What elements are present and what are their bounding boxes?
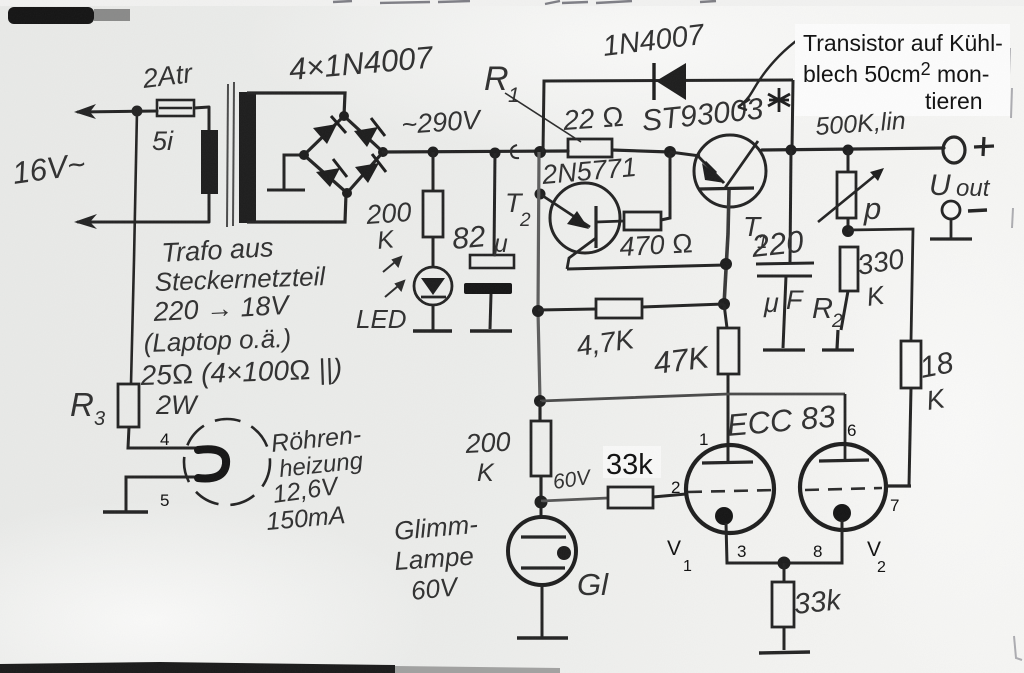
- transistor T1 internals: [697, 141, 758, 189]
- node rail / bypass loop: [534, 146, 546, 158]
- label R1 with pointer line: [484, 60, 581, 142]
- wire from AC node down to R3: [131, 111, 137, 384]
- label R2: [812, 293, 843, 332]
- wire minus terminal to ground: [950, 219, 953, 238]
- pin 2 label: [671, 478, 680, 497]
- bridge diode D3 (bottom-left arm): [316, 159, 347, 187]
- label Transistor auf Kuehlblech (printed): [795, 24, 1010, 116]
- label minus: [968, 210, 987, 211]
- output terminal -: [942, 201, 960, 219]
- arrow AC bottom left: [74, 214, 97, 229]
- bridge rectifier diamond outline: [304, 116, 383, 193]
- wire V1 cathode to pin 3: [726, 523, 784, 563]
- wire pot bottom to 18K branch: [848, 229, 913, 341]
- wire pencil dropper from rail node down to 60V node: [538, 152, 541, 502]
- tube V1 envelope: [686, 445, 774, 533]
- transformer TR1 core: [227, 82, 234, 227]
- wire R3 to heater pin 4: [128, 427, 205, 448]
- wire bypass loop down to output rail: [792, 80, 793, 150]
- glow lamp dot: [557, 546, 571, 560]
- label ECC 83: [726, 399, 837, 443]
- ground (82u): [470, 329, 512, 332]
- node junction AC top: [132, 106, 143, 117]
- ground (Gl): [517, 636, 568, 639]
- wire R1 to base node: [612, 150, 670, 152]
- pin 3 label: [737, 542, 746, 561]
- tube heater dashed envelope circle: [184, 419, 270, 505]
- wire AC bottom line: [78, 221, 209, 224]
- node output rail / pot branch: [843, 145, 854, 156]
- resistor R3: [118, 384, 139, 427]
- transformer TR1 primary winding: [201, 107, 218, 222]
- transformer TR1 secondary winding: [239, 92, 346, 223]
- output terminal +: [943, 137, 965, 163]
- wire V2 grid drop: [844, 394, 847, 459]
- node R1 / 470 Ohm / base: [664, 146, 676, 158]
- pin 5 label: [160, 491, 169, 510]
- ground (R2): [822, 330, 854, 350]
- label 60V: [551, 466, 593, 494]
- pin 6 label: [847, 421, 856, 440]
- callout arrow to transistor: [738, 38, 800, 110]
- label Gl: [577, 567, 609, 602]
- bridge corner nodes: [299, 111, 388, 198]
- label V2 (printed): [867, 538, 886, 576]
- label 82u: [451, 220, 508, 258]
- diode 1N4007 (bypass): [654, 63, 686, 100]
- label T2: [505, 188, 531, 231]
- tube V1 cathode dot: [715, 507, 733, 525]
- resistor 47K body: [718, 304, 739, 462]
- capacitor 82u wire: [494, 153, 495, 254]
- ground (output minus): [930, 237, 972, 240]
- label Trafo aus Steckernetzteil 220->18V (Laptop o.ae.): [143, 232, 327, 358]
- label Glimmlampe 60V: [393, 509, 479, 606]
- bridge diode D2 (top-right arm): [354, 118, 385, 147]
- label 2Atr: [140, 58, 195, 94]
- wire cap branch down: [790, 150, 791, 263]
- tube V2 anode: [819, 460, 869, 461]
- pin 4 label: [160, 430, 169, 449]
- transistor T2 base bar and leads: [540, 194, 596, 269]
- label 330 K: [855, 243, 906, 312]
- wire AC top line: [78, 107, 209, 112]
- ground (220uF): [763, 348, 805, 351]
- node emitter / T2 collector: [720, 258, 732, 270]
- node main rail / 200K: [428, 147, 439, 158]
- node main rail / 82u: [490, 148, 501, 159]
- label Roehrenheizung 12,6V 150mA: [265, 421, 365, 536]
- transistor T2 emitter arrow: [567, 211, 589, 229]
- node pencil line / 4,7K: [532, 305, 544, 317]
- scan artifact bar top-left: [8, 7, 130, 24]
- label 4,7K: [575, 323, 638, 362]
- label Uout: [929, 169, 991, 202]
- node output rail / cap branch: [786, 145, 797, 156]
- capacitor 220uF plates: [756, 263, 814, 276]
- label 33k (printed): [603, 446, 661, 481]
- tube heater filament loop: [198, 449, 226, 478]
- label 18 K: [917, 346, 956, 416]
- scan artifact bar bottom-left: [0, 662, 560, 673]
- resistor 4,7K body: [538, 299, 724, 318]
- label ~290V: [400, 104, 484, 140]
- pin 8 label: [813, 542, 822, 561]
- label 5i: [152, 126, 174, 156]
- wire heater pin 5 to ground: [126, 477, 199, 511]
- label 22 Ohm: [561, 101, 624, 136]
- node pot bottom: [842, 225, 854, 237]
- wire bypass loop up and across (collector supply): [543, 80, 793, 152]
- resistor 470 Ohm body: [596, 153, 670, 230]
- resistor 33k (grid stopper) body: [608, 487, 686, 508]
- ground (heater): [103, 510, 148, 513]
- wire base node to ST93003: [670, 152, 700, 156]
- LED indicator arrows: [383, 257, 404, 297]
- node cathode join: [778, 557, 791, 570]
- top edge cut-off writing marks: [333, 1, 716, 4]
- tube V2 grid (dashed): [805, 488, 882, 490]
- scan specks right edge: [1009, 48, 1022, 660]
- capacitor 82u bottom plate: [464, 283, 512, 294]
- wire output rail: [762, 148, 944, 150]
- resistor 200K (divider) body: [531, 401, 551, 502]
- transistor T1 arrow: [702, 162, 725, 183]
- label 220 uF: [749, 224, 805, 318]
- resistor 33k (cathode) body: [772, 563, 794, 650]
- potentiometer P wiper arrow: [818, 168, 884, 222]
- label 47K: [652, 339, 712, 381]
- wire 82u to ground: [490, 294, 491, 329]
- resistor 18K body: [901, 341, 921, 486]
- resistor R2 330K body: [840, 247, 858, 330]
- label V1 (printed): [667, 537, 692, 575]
- pin 1 label: [699, 430, 708, 449]
- node emitter / 4,7K: [718, 298, 730, 310]
- tick mark c on rail: [511, 145, 519, 158]
- label R3: [70, 386, 105, 430]
- ground (cathode 33k): [759, 652, 810, 653]
- label 2N5771: [540, 152, 638, 190]
- label T1: [743, 211, 768, 253]
- label plus: [974, 137, 994, 156]
- label 16V~: [10, 146, 87, 191]
- label 1N4007: [601, 19, 708, 63]
- transistor T2 2N5771 envelope: [550, 183, 620, 253]
- label 470 Ohm: [619, 228, 694, 262]
- LED D5: [414, 237, 452, 330]
- transistor T1 ST93003 envelope: [694, 135, 766, 207]
- glow lamp Gl envelope: [508, 502, 576, 585]
- transformer secondary tap to ground bar: [267, 155, 305, 190]
- wire main B+ rail from bridge to R1: [383, 151, 568, 152]
- node pencil line / grid feed: [534, 395, 546, 407]
- wire V2 pin7 to 18K: [886, 484, 911, 487]
- label 25 Ohm (4x100 Ohm parallel) 2W: [139, 353, 343, 420]
- bridge diode D1 (top-left arm): [313, 116, 346, 144]
- pin 7 label: [890, 496, 899, 515]
- label 500K lin: [814, 107, 906, 141]
- wire 60V node to 33k grid resistor: [541, 498, 608, 501]
- bridge diode D4 (bottom-right arm): [355, 154, 386, 183]
- wire ST emitter stem down: [724, 190, 729, 305]
- resistor 200K (bleeder) body: [423, 152, 443, 237]
- node pencil line / T2 emitter: [535, 189, 546, 200]
- capacitor 82u top plate: [470, 255, 514, 268]
- label P: [863, 191, 881, 226]
- tube V1 anode: [702, 462, 753, 463]
- ground (LED): [413, 329, 452, 332]
- wire T2 collector to ST emitter stem: [567, 265, 725, 269]
- label 4x1N4007: [288, 39, 436, 87]
- potentiometer P body: [837, 150, 856, 231]
- label LED: [356, 304, 407, 334]
- label 33k (cathode): [792, 584, 843, 621]
- wire 220uF to ground: [783, 276, 786, 348]
- resistor R1 22 Ohm body: [568, 139, 612, 157]
- label 200 K (divider): [464, 427, 512, 487]
- wire Gl to ground: [541, 585, 544, 637]
- wire grid feed across to V2 grid: [540, 394, 845, 401]
- tube V2 cathode dot: [833, 504, 851, 522]
- tube V2 envelope: [800, 444, 886, 530]
- arrow AC top left: [74, 104, 96, 119]
- asterisk marker: [768, 88, 790, 112]
- label ST93003: [640, 92, 765, 138]
- node 60V: [535, 496, 548, 509]
- glow lamp electrodes: [521, 537, 566, 568]
- label 200 K (bleeder): [364, 197, 412, 255]
- wire V2 cathode to pin 8: [784, 520, 842, 563]
- tube V1 grid (dashed): [688, 490, 776, 492]
- fuse F1: [157, 100, 194, 116]
